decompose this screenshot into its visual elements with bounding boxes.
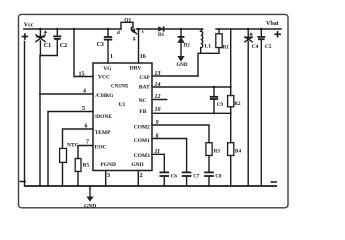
capacitor C5: [257, 28, 271, 186]
svg-text:R2: R2: [234, 102, 241, 107]
wire C1C2 down to ground rail: [39, 56, 41, 187]
svg-text:COM1: COM1: [134, 138, 150, 144]
resistor R1 current sense: [216, 29, 230, 53]
svg-text:BAT: BAT: [139, 85, 150, 91]
svg-text:7: 7: [86, 140, 89, 146]
wire pin9 COM2: [152, 120, 209, 143]
capacitor C3 on VG pin1: [97, 28, 113, 63]
capacitor C6: [160, 172, 178, 186]
svg-text:/CHRG: /CHRG: [94, 93, 114, 99]
wire pin8 COM1: [152, 134, 187, 172]
svg-text:R1: R1: [223, 46, 230, 51]
svg-text:5: 5: [82, 106, 85, 112]
svg-text:C3: C3: [97, 42, 104, 48]
svg-text:15: 15: [79, 72, 85, 78]
wire L1/R1 bottom node to CSP: [198, 53, 219, 76]
svg-text:C9: C9: [217, 103, 224, 108]
wire pin12 NC stub: [152, 94, 167, 100]
diode D1: [158, 26, 203, 38]
wire pin10 FB: [152, 107, 231, 114]
inductor L1: [201, 29, 212, 53]
border frame: [19, 14, 289, 207]
svg-text:DRV: DRV: [130, 66, 142, 72]
minus terminal right: [271, 181, 278, 183]
junction dots: [230, 86, 232, 88]
svg-text:EOC: EOC: [95, 144, 107, 150]
svg-text:COM3: COM3: [134, 153, 150, 159]
wire pin4 /CHRG: [40, 89, 93, 95]
svg-text:R3: R3: [214, 150, 221, 155]
svg-text:d: d: [117, 31, 120, 36]
svg-text:/DONE: /DONE: [94, 114, 113, 120]
svg-text:CN3705: CN3705: [111, 85, 129, 90]
op IC U1 CN3705 body: [93, 63, 152, 171]
wire left vertical (input negative side): [24, 42, 26, 187]
svg-text:R5: R5: [83, 163, 90, 169]
wire top rail Q1 source to D1: [137, 28, 159, 30]
svg-text:Vbat: Vbat: [266, 21, 279, 27]
svg-text:C6: C6: [171, 175, 178, 180]
wire pin13 CSP: [152, 71, 198, 77]
svg-text:Vcc: Vcc: [24, 22, 34, 28]
wire pin2 GND stub: [138, 171, 142, 187]
svg-text:GND: GND: [84, 203, 96, 209]
capacitor C1: [36, 28, 51, 56]
wire pin16 DRV drop: [137, 28, 146, 63]
svg-text:9: 9: [156, 120, 159, 126]
svg-text:TEMP: TEMP: [95, 130, 112, 136]
svg-text:NTC: NTC: [67, 143, 79, 149]
resistor R4: [228, 113, 242, 186]
resistor R2: [228, 29, 241, 113]
minus terminal left: [20, 181, 27, 183]
svg-text:6: 6: [85, 124, 88, 130]
ground (bottom GND symbol): [84, 186, 96, 209]
svg-text:PGND: PGND: [100, 162, 116, 168]
svg-text:D1: D1: [158, 33, 165, 38]
wire battery top rail: [216, 28, 281, 30]
svg-text:C4: C4: [252, 44, 259, 50]
svg-text:s: s: [142, 30, 144, 35]
svg-text:g: g: [133, 37, 136, 42]
diode D2 freewheeling: [178, 28, 191, 56]
resistor R5 on pin7 EOC: [75, 140, 93, 187]
svg-text:8: 8: [156, 134, 159, 140]
wire pin5 /DONE down to ground: [48, 106, 93, 186]
svg-text:FB: FB: [139, 109, 146, 115]
svg-text:C5: C5: [265, 44, 272, 50]
svg-text:U1: U1: [119, 102, 126, 108]
svg-text:11: 11: [155, 149, 161, 155]
svg-text:D2: D2: [184, 43, 191, 48]
svg-text:GND: GND: [176, 63, 188, 68]
svg-text:C2: C2: [60, 43, 67, 49]
wire pin3 PGND stub: [106, 171, 110, 187]
ground (top, under D2): [176, 56, 188, 68]
capacitor C8: [204, 172, 222, 186]
svg-text:12: 12: [155, 94, 161, 100]
svg-text:14: 14: [155, 82, 161, 88]
svg-text:16: 16: [140, 54, 146, 60]
capacitor C9: [210, 86, 224, 114]
input plus terminal: [22, 33, 29, 40]
svg-text:COM2: COM2: [134, 124, 150, 130]
thermistor NTC on pin6 TEMP: [60, 124, 93, 187]
svg-text:VG: VG: [103, 66, 112, 72]
capacitor C7: [182, 172, 200, 186]
wire pin15 VCC branch: [73, 28, 93, 78]
svg-text:C7: C7: [193, 175, 200, 180]
svg-text:10: 10: [155, 107, 161, 113]
svg-text:GND: GND: [131, 162, 143, 168]
svg-text:VCC: VCC: [98, 75, 110, 81]
svg-text:4: 4: [83, 89, 86, 95]
transistor Q1 (PMOS pass switch): [117, 18, 144, 42]
svg-text:13: 13: [155, 71, 161, 77]
capacitor C2: [53, 28, 67, 56]
capacitor C4 (polarized output cap): [245, 28, 259, 186]
svg-text:1: 1: [110, 54, 113, 60]
wire pin14 BAT: [152, 82, 231, 88]
svg-text:C8: C8: [215, 175, 222, 180]
wire top rail left (Vcc to Q1 drain): [24, 28, 121, 30]
IC internal labels: [94, 66, 151, 169]
output plus terminal: [274, 31, 281, 38]
svg-text:L1: L1: [205, 43, 212, 49]
wire C1-C2 join: [40, 55, 57, 57]
svg-text:NC: NC: [138, 98, 146, 104]
resistor R3: [206, 143, 221, 172]
svg-text:2: 2: [140, 173, 143, 179]
svg-text:C1: C1: [44, 43, 51, 49]
svg-text:R4: R4: [235, 150, 242, 155]
wire ground rail: [25, 185, 278, 187]
svg-text:CSP: CSP: [139, 75, 150, 81]
wire pin11 COM3: [152, 149, 164, 172]
svg-text:3: 3: [107, 173, 110, 179]
